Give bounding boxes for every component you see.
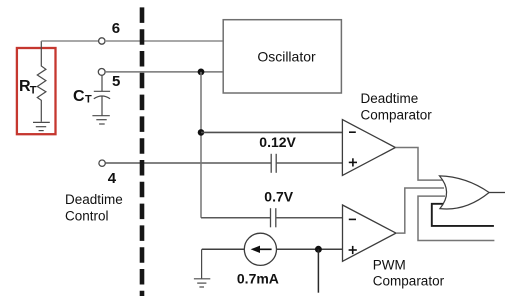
oscillator U1 [223,20,341,93]
pin 6 terminal [99,38,105,44]
node: pin5/bus junction [198,69,205,76]
ground (current source) [194,249,210,287]
wire: OR input 3 from right edge [418,196,494,240]
svg-text:Comparator: Comparator [373,274,445,289]
op-amp U2 deadtime comparator [342,120,395,176]
source 0.12V (series bars) [271,154,276,173]
svg-text:0.7mA: 0.7mA [237,271,279,287]
pin label plus (deadtime) [349,158,357,166]
svg-text:T: T [85,94,92,106]
svg-text:Oscillator: Oscillator [257,49,316,65]
svg-text:C: C [73,88,85,105]
node: feedback junction [315,246,322,253]
svg-text:6: 6 [112,20,120,37]
wire: OR output [489,192,505,194]
pin label minus (PWM) [349,218,356,220]
pin 4 terminal [99,160,105,166]
pin label minus (deadtime) [349,131,356,133]
ground (RT) [33,122,50,130]
svg-text:Control: Control [65,208,109,223]
OR gate [440,176,490,209]
svg-text:4: 4 [108,170,117,187]
wire: bus corner to 0.7V [201,217,271,219]
red highlight box [17,48,56,134]
source 0.7V (series bars) [271,208,276,227]
current source 0.7mA [244,233,276,265]
wire: bus vertical from pin5 node [200,72,202,218]
wire: pin 4 to 0.12V [105,162,271,164]
svg-text:Deadtime: Deadtime [65,192,123,207]
wire: ground to current source [202,248,245,250]
op-amp U3 PWM comparator [343,205,397,261]
dashed boundary line [140,7,145,296]
wire: current source to PWM plus input [277,248,343,250]
wire: pin 6 to oscillator [105,40,223,42]
svg-text:5: 5 [112,73,120,90]
svg-text:Comparator: Comparator [361,108,433,123]
capacitor CT [94,75,110,115]
pin 5 terminal [98,69,105,76]
svg-text:Deadtime: Deadtime [361,91,419,106]
svg-text:T: T [30,85,37,97]
wire: RT top to pin 6 [41,40,98,42]
wire: OR input 4 from right edge [432,204,494,226]
svg-text:0.7V: 0.7V [264,189,293,205]
svg-text:PWM: PWM [373,257,406,272]
node: bus / deadtime minus junction [198,129,205,136]
wire: 0.7V to PWM comparator minus input [276,217,343,219]
wire: 0.12V to deadtime comparator plus input [276,162,342,164]
wire: junction down to edge [317,249,319,292]
wire: PWM output to OR input 2 [396,188,444,233]
pin label plus (PWM) [349,246,357,254]
wire: bus to deadtime comparator minus input [201,131,343,133]
wire: deadtime output to OR input 1 [395,148,444,181]
resistor RT [37,41,46,122]
svg-text:0.12V: 0.12V [259,134,296,150]
wire: pin 5 to oscillator [105,71,223,73]
ground (CT) [92,116,109,124]
